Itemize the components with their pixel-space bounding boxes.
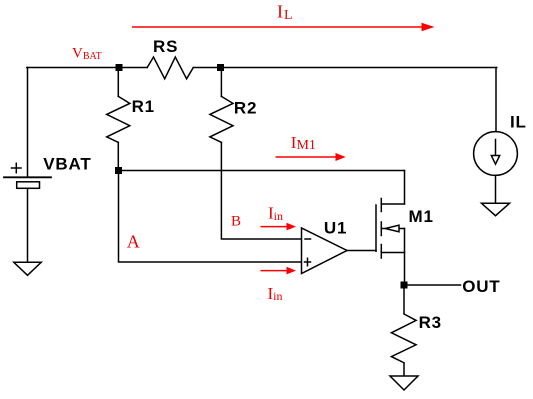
- ground (battery): [14, 262, 41, 275]
- wire IL to ground: [495, 175, 497, 203]
- transistor M1 source lead: [381, 252, 404, 254]
- node junction VBAT rail / R1: [116, 64, 123, 71]
- node junction R1 bottom / A: [115, 167, 122, 174]
- op-amp minus sign: [305, 238, 311, 240]
- wire M1 drain vertical: [404, 171, 406, 205]
- svg-text:R1: R1: [132, 97, 155, 116]
- svg-text:R2: R2: [234, 98, 257, 117]
- svg-text:VBAT: VBAT: [43, 155, 91, 174]
- resistor R3: [391, 314, 416, 363]
- current arrow Iin bottom: [261, 267, 297, 275]
- current source IL circle: [474, 132, 518, 176]
- wire down to IL current source: [495, 68, 497, 133]
- ground (R3): [390, 376, 418, 390]
- wire R2 top: [220, 68, 222, 97]
- resistor R1: [107, 96, 130, 142]
- wire top rail right from RS to IL corner: [193, 67, 496, 69]
- wire top rail left from battery to RS: [27, 67, 147, 69]
- wire battery to ground: [27, 188, 29, 262]
- current source IL arrow: [491, 140, 499, 165]
- svg-text:M1: M1: [409, 207, 434, 226]
- transistor M1 drain lead: [381, 203, 404, 205]
- battery plus sign: [12, 163, 22, 172]
- svg-text:A: A: [127, 231, 140, 251]
- svg-text:IL: IL: [510, 112, 527, 131]
- transistor M1 gate bar: [375, 205, 377, 251]
- resistor RS: [147, 57, 193, 79]
- transistor M1 channel bottom segment: [380, 245, 382, 259]
- op-amp U1: [302, 228, 348, 274]
- wire OUT: [404, 284, 461, 286]
- current arrow Iin top: [261, 223, 297, 231]
- resistor R2: [210, 96, 233, 142]
- wire node A to op-amp plus input: [119, 171, 302, 263]
- transistor M1 body arrow: [385, 225, 399, 232]
- wire R3 to ground: [403, 363, 405, 376]
- wire R1 bottom to node: [117, 142, 119, 170]
- battery VBAT negative plate: [17, 182, 40, 189]
- node junction RS right / R2: [217, 64, 224, 71]
- svg-text:OUT: OUT: [462, 277, 500, 296]
- battery VBAT positive plate: [4, 176, 51, 178]
- svg-text:RS: RS: [153, 37, 178, 56]
- transistor M1 channel top segment: [380, 199, 382, 212]
- wire battery column top: [27, 68, 29, 178]
- svg-text:R3: R3: [419, 313, 442, 332]
- op-amp plus sign: [305, 258, 311, 265]
- node junction OUT: [401, 282, 408, 289]
- svg-text:U1: U1: [324, 219, 347, 238]
- wire rail node to M1 drain: [119, 170, 405, 172]
- current arrow IL: [132, 23, 435, 32]
- svg-text:B: B: [231, 213, 241, 229]
- ground (IL): [482, 203, 510, 215]
- current arrow IM1: [276, 153, 346, 161]
- wire R1 top: [117, 68, 119, 97]
- transistor M1 channel middle segment: [380, 222, 382, 236]
- wire op-amp output to M1 gate: [347, 250, 376, 252]
- wire OUT node to R3: [403, 285, 405, 314]
- transistor M1 body lead: [381, 228, 404, 230]
- wire M1 source to OUT node: [404, 229, 406, 286]
- wire R2 bottom to node B corner: [221, 142, 301, 239]
